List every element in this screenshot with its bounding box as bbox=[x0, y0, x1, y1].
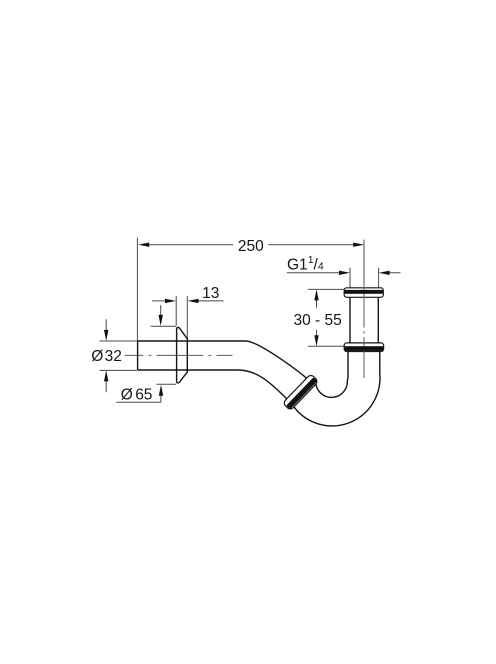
svg-text:65: 65 bbox=[135, 386, 152, 403]
dim Ø65 bottom extension line bbox=[156, 383, 176, 385]
dim 13 line bbox=[152, 300, 224, 302]
trap inner wall: tube left edge and inner U arc bbox=[316, 351, 348, 397]
svg-text:13: 13 bbox=[202, 285, 219, 302]
arrowhead 13 left bbox=[165, 299, 176, 303]
inlet pipe left end bbox=[137, 341, 139, 370]
arrowhead Ø65 top bbox=[159, 315, 163, 326]
svg-text:Ø: Ø bbox=[91, 348, 103, 365]
arrowhead Ø32 bottom bbox=[104, 370, 108, 381]
dim Ø65 top arrow tail bbox=[160, 305, 162, 315]
wall escutcheon flange bbox=[177, 327, 188, 383]
dim Ø32 extension lines bbox=[99, 341, 137, 370]
arrowhead G1 right bbox=[379, 271, 390, 275]
arrowhead 30-55 top bbox=[314, 289, 318, 300]
arrowhead Ø65 bottom bbox=[159, 385, 163, 396]
inlet pipe bottom edge into down-bend bbox=[138, 370, 290, 401]
trap outer wall: tube right edge and outer U arc bbox=[294, 351, 380, 426]
riser pipe right edge bbox=[377, 297, 379, 343]
dim G1 1/4 leader underline bbox=[287, 272, 401, 274]
top union flange white body bbox=[344, 288, 383, 298]
dim G1 1/4 extension lines bbox=[350, 268, 379, 288]
inlet pipe top edge into down-bend bbox=[138, 341, 311, 382]
svg-text:250: 250 bbox=[238, 238, 264, 255]
dim Ø32 arrow tails bbox=[105, 319, 107, 392]
bottom union flange white body bbox=[344, 343, 383, 352]
dim 13 extension lines bbox=[176, 296, 187, 341]
arrowhead Ø32 top bbox=[104, 330, 108, 341]
svg-text:32: 32 bbox=[105, 348, 122, 365]
bottom union flange black band bbox=[345, 346, 384, 351]
arrowhead 250 left bbox=[138, 243, 149, 247]
dim 250 line bbox=[148, 244, 354, 246]
dim Ø65 top extension line bbox=[151, 325, 176, 327]
centerline vertical pipe bbox=[363, 284, 365, 378]
arrowhead G1 left bbox=[339, 271, 350, 275]
arrowhead 250 right bbox=[353, 243, 364, 247]
dim 250 extension line right bbox=[363, 240, 365, 284]
centerline horizontal pipe bbox=[125, 354, 233, 356]
compression nut on diagonal bbox=[283, 374, 319, 411]
dim 30-55 line bbox=[316, 300, 318, 336]
svg-text:Ø: Ø bbox=[121, 386, 133, 403]
arrowhead 30-55 bottom bbox=[314, 335, 318, 346]
svg-text:30 - 55: 30 - 55 bbox=[293, 312, 341, 329]
dim Ø65 leader underline bbox=[116, 396, 161, 403]
top union flange black band bbox=[345, 290, 383, 294]
dim 30-55 extension lines bbox=[308, 289, 344, 346]
arrowhead 13 right bbox=[188, 299, 199, 303]
dim 250 extension line left bbox=[136, 238, 138, 341]
riser pipe left edge bbox=[349, 297, 351, 343]
